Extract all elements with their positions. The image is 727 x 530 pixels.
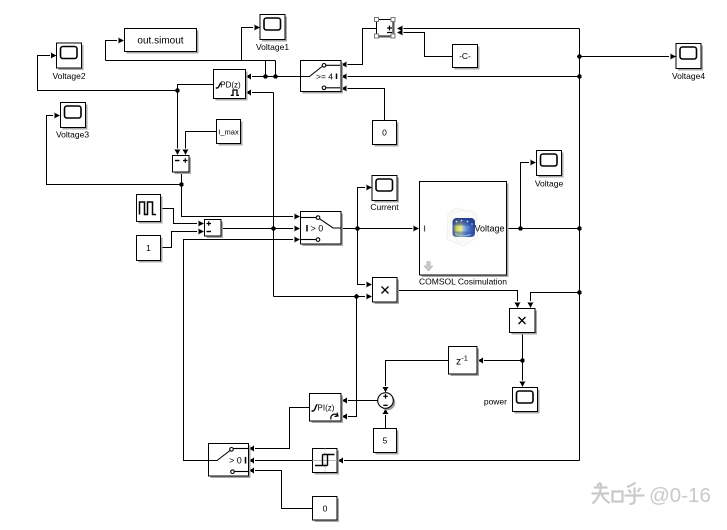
wire sum1 output branch to Voltage3	[47, 113, 184, 187]
wire out.simout input	[106, 38, 125, 61]
svg-text:Voltage: Voltage	[474, 224, 504, 234]
wire branch y296 to product P1	[274, 294, 373, 300]
svg-text:1: 1	[146, 243, 151, 253]
wire constant five output to sum circle	[383, 409, 389, 429]
scope Voltage4	[672, 44, 705, 82]
svg-text:PI(z): PI(z)	[318, 403, 335, 412]
wire PI(z) output to switch Sw3	[249, 408, 310, 452]
wire relay output to switch Sw3	[249, 458, 313, 464]
wire long vertical bus	[577, 29, 582, 461]
wire pulse generator output	[161, 209, 205, 227]
wire unit delay output to sum circle	[383, 361, 449, 393]
svg-text:COMSOL Cosimulation: COMSOL Cosimulation	[419, 277, 507, 287]
wire PD(z) output	[178, 85, 214, 91]
wire riser B	[273, 61, 278, 79]
sum circle S4	[378, 393, 396, 411]
svg-text:Current: Current	[370, 202, 399, 212]
wire branch to power scope	[520, 361, 526, 388]
svg-text:out.simout: out.simout	[137, 36, 183, 47]
constant zero (top)	[373, 121, 399, 147]
wire product P2 output to unit delay	[478, 333, 525, 364]
svg-text:power: power	[484, 397, 507, 407]
svg-text:Voltage3: Voltage3	[56, 130, 89, 140]
sum S3 (selected)	[375, 18, 396, 39]
wire branch to product P2 in2	[528, 293, 580, 309]
scope Voltage1	[256, 15, 289, 53]
wire constant -C- output to sum3	[397, 30, 453, 57]
product P1	[373, 278, 400, 305]
wire bus top to sum3	[397, 26, 580, 32]
svg-text:-C-: -C-	[459, 51, 471, 61]
svg-text:5: 5	[383, 436, 388, 446]
wire branch to Voltage2	[38, 53, 180, 93]
wire sum circle output to PI(z)	[342, 398, 378, 404]
svg-text:> 0: > 0	[311, 223, 324, 233]
wire bus bottom to relay	[338, 458, 580, 464]
wire sum3 output to switch Sw1 in1	[341, 29, 377, 68]
sum S2	[205, 220, 224, 239]
wire branch to Voltage scope	[521, 160, 537, 229]
svg-text:> 0: > 0	[229, 456, 242, 466]
wire branch to switch Sw1 in2	[341, 74, 580, 80]
switch Sw2 current	[301, 212, 344, 247]
scope Voltage3	[56, 103, 89, 140]
svg-text:>= 4: >= 4	[316, 71, 333, 81]
svg-text:PD(z): PD(z)	[220, 80, 241, 89]
subsystem COMSOL Cosimulation	[419, 182, 509, 287]
scope Voltage2	[52, 43, 85, 81]
wire branch to Voltage4	[580, 54, 677, 60]
wire sum2 branch to PD(z) in2	[246, 90, 276, 297]
wire sum2 output to switch Sw2	[222, 226, 301, 232]
wire switch Sw3 output to switch Sw2 in3	[184, 237, 301, 461]
scope Current	[370, 176, 399, 213]
constant one	[137, 236, 163, 263]
switch Sw1 threshold 4	[301, 61, 344, 94]
svg-text:@0-16: @0-16	[649, 484, 711, 507]
controller PD(z)	[214, 70, 248, 101]
constant -C-	[453, 45, 480, 70]
svg-text:0: 0	[382, 128, 387, 138]
product P2	[510, 309, 538, 335]
scope power	[484, 388, 540, 414]
wire I_max output to sum1	[183, 132, 217, 156]
svg-text:I: I	[424, 224, 426, 234]
wire constant zero bottom to switch Sw3	[249, 468, 313, 509]
controller PI(z)	[310, 394, 344, 424]
wire product P1 output to P2	[398, 291, 521, 309]
scope Voltage	[535, 151, 564, 189]
wire branch line y60	[106, 60, 276, 62]
block out.simout	[125, 29, 199, 54]
wire constant zero top to switch Sw1 in3	[341, 86, 385, 121]
wire branch to product P1 in1	[358, 229, 373, 288]
svg-text:Voltage: Voltage	[535, 179, 564, 189]
wire to Voltage1	[242, 25, 261, 61]
constant five	[374, 429, 399, 455]
wire PD(z) output down to sum1	[175, 91, 181, 156]
wire branch to PI(z) in2	[342, 297, 357, 420]
wire switch Sw1 output to PD(z)	[246, 74, 301, 80]
wire COMSOL output	[507, 226, 582, 231]
constant I_max	[217, 120, 243, 146]
wire sum1 output to switch Sw2 in1	[182, 185, 301, 220]
svg-text:I_max: I_max	[218, 128, 239, 137]
sum S1	[173, 156, 192, 175]
svg-text:0: 0	[323, 504, 328, 514]
unit delay Z-1	[449, 347, 480, 377]
svg-text:Voltage1: Voltage1	[256, 42, 289, 52]
watermark zhihu @0-16	[592, 483, 711, 508]
svg-text:Voltage4: Voltage4	[672, 71, 705, 81]
svg-text:Voltage2: Voltage2	[52, 71, 85, 81]
relay	[313, 449, 340, 475]
switch Sw3	[209, 444, 251, 479]
constant zero (bottom)	[313, 497, 340, 523]
pulse generator	[137, 195, 163, 224]
wire switch Sw2 output to COMSOL	[341, 226, 419, 232]
wire constant one output	[161, 229, 205, 248]
wire branch to Current scope	[358, 185, 373, 229]
wire riser A	[263, 61, 268, 79]
